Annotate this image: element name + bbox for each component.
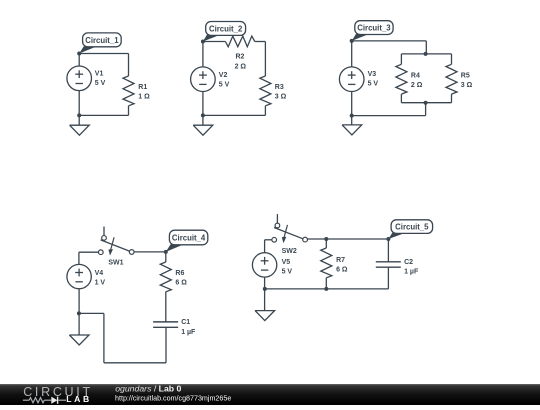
svg-text:R2: R2 <box>236 54 245 61</box>
svg-text:5 V: 5 V <box>219 82 230 89</box>
svg-text:5 V: 5 V <box>95 80 106 87</box>
svg-text:V4: V4 <box>95 270 104 277</box>
svg-text:Circuit_5: Circuit_5 <box>395 223 429 232</box>
svg-text:3 Ω: 3 Ω <box>275 94 287 101</box>
svg-text:ogundars / Lab 0: ogundars / Lab 0 <box>115 383 181 393</box>
svg-text:R5: R5 <box>461 72 470 79</box>
svg-text:C2: C2 <box>404 259 413 266</box>
svg-text:1 Ω: 1 Ω <box>138 94 150 101</box>
svg-text:2 Ω: 2 Ω <box>411 82 423 89</box>
svg-text:Circuit_4: Circuit_4 <box>172 233 206 242</box>
svg-text:V2: V2 <box>219 72 228 79</box>
svg-text:1 V: 1 V <box>95 279 106 286</box>
svg-text:3 Ω: 3 Ω <box>461 82 473 89</box>
svg-text:R3: R3 <box>275 84 284 91</box>
svg-text:C1: C1 <box>181 319 190 326</box>
svg-text:R1: R1 <box>138 84 147 91</box>
svg-text:R7: R7 <box>336 257 345 264</box>
svg-text:5 V: 5 V <box>368 80 379 87</box>
svg-text:R4: R4 <box>411 72 420 79</box>
svg-text:6 Ω: 6 Ω <box>175 280 187 287</box>
svg-text:2 Ω: 2 Ω <box>235 63 247 70</box>
svg-text:http://circuitlab.com/cg8773mj: http://circuitlab.com/cg8773mjm265e <box>115 394 231 402</box>
svg-text:1 µF: 1 µF <box>181 329 196 336</box>
svg-text:R6: R6 <box>175 270 184 277</box>
svg-text:1 µF: 1 µF <box>404 269 419 276</box>
svg-text:SW2: SW2 <box>282 248 297 255</box>
svg-text:V5: V5 <box>282 259 291 266</box>
svg-text:LAB: LAB <box>66 394 91 404</box>
svg-text:SW1: SW1 <box>108 260 123 267</box>
svg-text:Circuit_2: Circuit_2 <box>209 24 243 33</box>
svg-text:6 Ω: 6 Ω <box>336 267 348 274</box>
svg-text:Circuit_1: Circuit_1 <box>85 36 119 45</box>
svg-text:5 V: 5 V <box>282 269 293 276</box>
svg-text:Circuit_3: Circuit_3 <box>357 24 391 33</box>
svg-text:V1: V1 <box>95 71 104 78</box>
svg-text:V3: V3 <box>368 71 377 78</box>
